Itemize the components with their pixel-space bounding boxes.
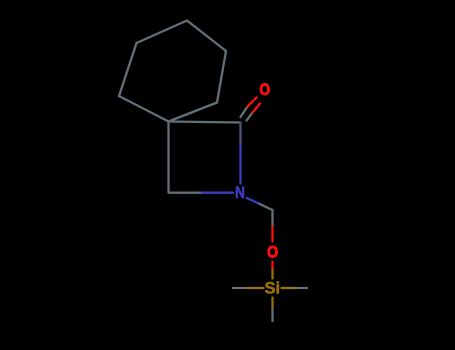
cyclohexane ring (spiro): [119, 21, 226, 122]
svg-text:O: O: [259, 81, 270, 99]
wire: Si-CH3 left carbon half: [233, 287, 247, 289]
wire: C=O line2 oxygen half: [253, 104, 261, 113]
svg-text:Si: Si: [265, 280, 281, 298]
O-Si bond: [271, 262, 273, 279]
wire: hexagon edge P5-P4: [119, 43, 137, 96]
wire: Si-CH3 right carbon half: [297, 287, 307, 289]
wire: ring edge D-N nitrogen half: [202, 192, 233, 194]
wire: ring edge A-B (spiro C to carbonyl C): [169, 122, 241, 123]
wire: Si-CH3 down carbon half: [271, 309, 273, 321]
wire: N-CH2 nitrogen half: [247, 198, 260, 204]
wire: ring edge A-D (left side): [167, 122, 169, 192]
wire: hexagon edge P4-P3: [137, 21, 188, 44]
wire: CH2-O carbon half: [271, 210, 273, 227]
ring nitrogen label N: [235, 184, 245, 202]
N-CH2 bond: [247, 198, 273, 210]
wire: N-CH2 carbon half: [260, 204, 273, 210]
wire: ring edge D-N carbon half: [169, 192, 203, 194]
CH2-O bond: [271, 210, 273, 242]
azetidinone ring: [169, 122, 241, 193]
svg-text:O: O: [267, 244, 278, 262]
wire: hexagon edge P1-A: [169, 103, 218, 122]
svg-text:N: N: [235, 184, 245, 202]
wire: hexagon edge P3-P2: [187, 21, 226, 52]
ketone oxygen label O: [259, 81, 270, 99]
wire: Si-CH3 down silicon half: [271, 298, 273, 310]
trimethyl bonds: [233, 288, 307, 321]
wire: C=O line1 oxygen half: [248, 98, 257, 107]
wire: C=O line1 carbon half: [241, 107, 248, 118]
wire: Si-CH3 right silicon half: [282, 287, 298, 289]
wire: C=O line2 carbon half: [247, 113, 253, 121]
carbonyl C=O double bond: [241, 98, 261, 121]
wire: O-Si oxygen half: [271, 262, 273, 271]
ether oxygen label O: [267, 244, 278, 262]
wire: hexagon edge P2-P1: [217, 51, 226, 103]
wire: ring edge B-N lower half (nitrogen side): [239, 146, 241, 184]
wire: O-Si silicon half: [271, 270, 273, 279]
wire: CH2-O oxygen half: [271, 227, 273, 242]
wire: Si-CH3 left silicon half: [247, 287, 264, 289]
wire: ring edge B-N upper half (carbon side): [239, 123, 241, 147]
wire: hexagon edge A-P5: [119, 96, 169, 122]
